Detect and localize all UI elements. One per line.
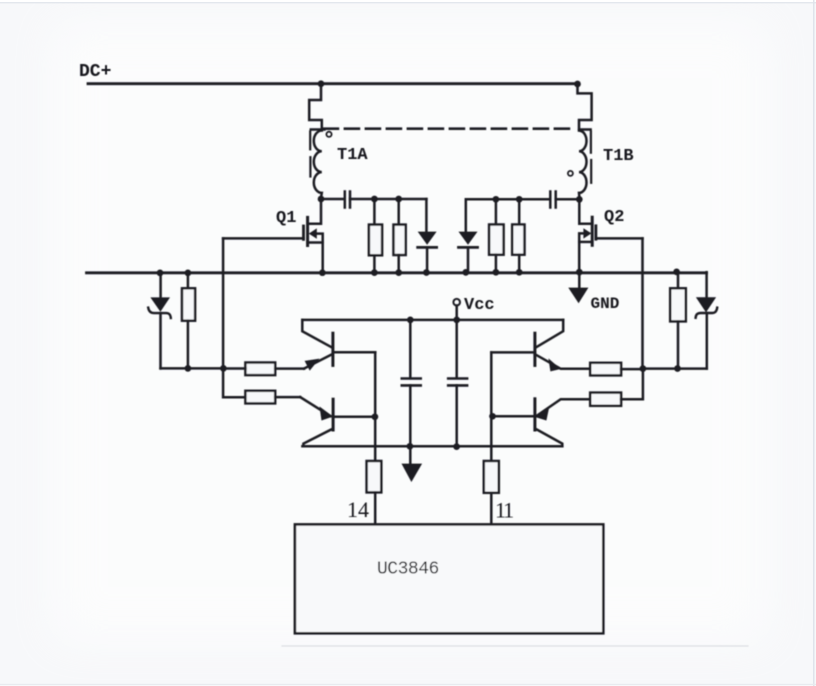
capacitor C1 plates (344, 192, 347, 208)
svg-text:T1A: T1A (337, 146, 368, 165)
node dot right gate junction (640, 365, 647, 372)
wire faint scan artifact (282, 645, 748, 647)
wire Vcc lead (455, 306, 458, 379)
wire bottom rail (87, 271, 707, 274)
transistor QC emitter arrow (548, 358, 560, 371)
resistor R2 (397, 199, 400, 225)
node dot R10 bottom (674, 365, 681, 372)
transformer T1A winding (314, 131, 322, 197)
transformer T1A core dash 2 (309, 157, 311, 176)
wire T1B crank lead (578, 84, 592, 130)
node junction dot T1B top (574, 81, 581, 88)
wire QB base (333, 416, 375, 419)
node dot QB base (372, 413, 379, 420)
node dot R2 top (395, 196, 402, 203)
wire dashed coupling line (324, 127, 575, 130)
wire Q2 body stub (579, 241, 592, 244)
svg-text:T1B: T1B (603, 147, 634, 166)
transistor QA emitter arrow (305, 359, 320, 371)
wire left protection to gate node (161, 367, 224, 370)
transistor QD emitter arrow (535, 407, 549, 420)
transistor QD bar (533, 399, 536, 430)
wire T1A crank lead (309, 84, 322, 130)
transformer T1B phase dot (568, 171, 573, 176)
ground GND arrow (578, 272, 581, 288)
resistor R7 (245, 391, 275, 404)
node junction dot T1A top (318, 80, 325, 87)
svg-text:Q2: Q2 (604, 208, 624, 227)
diode D2 (466, 199, 550, 231)
resistor R1 (373, 199, 376, 225)
resistor R11 (367, 461, 382, 492)
transistor Q2 source arrow (583, 228, 591, 238)
wire QC base (491, 351, 535, 354)
node rail dots (157, 270, 164, 277)
wire Q2 drain (579, 199, 591, 223)
transformer T1B core dash 2 (590, 160, 592, 183)
wire Q2 gate vertical (641, 238, 644, 368)
wire pin 14 (374, 352, 377, 461)
svg-text:Q1: Q1 (276, 209, 296, 228)
wire right protection (643, 367, 707, 370)
wire Vcc bus (302, 319, 563, 322)
node dot lower bus cap1 (407, 443, 414, 450)
transistor QC bar (533, 333, 536, 365)
capacitor C4 (448, 377, 467, 380)
resistor R8 (590, 363, 621, 376)
wire QD emitter (536, 399, 590, 416)
resistor R6 (245, 363, 275, 376)
wire left cap lead (321, 198, 345, 201)
wire pin 11 (490, 352, 493, 461)
transistor Q1 source arrow (309, 228, 317, 238)
wire QB emitter (300, 397, 330, 416)
svg-text:UC3846: UC3846 (377, 560, 439, 580)
wire Q2 source (579, 233, 584, 272)
wire QC collector (536, 320, 563, 347)
node junction dot T1B bottom (576, 196, 583, 203)
wire Q1 body stub (308, 241, 323, 244)
wire left group top (350, 198, 426, 201)
transformer T1B core dash 1 (590, 132, 592, 153)
node dot cap1 top (407, 317, 414, 324)
transformer T1B winding (579, 131, 587, 197)
svg-text:14: 14 (347, 497, 369, 522)
wire Q1 drain (309, 199, 321, 224)
wire QD base (493, 415, 535, 418)
resistor R5 (187, 273, 190, 288)
node junction dot T1A bottom (318, 196, 325, 203)
transistor QB bar (332, 399, 335, 430)
svg-text:GND: GND (591, 295, 620, 313)
ground arrow center (402, 464, 423, 482)
capacitor C2 plates (549, 192, 552, 208)
wire Q2 gate lead (596, 237, 643, 240)
wire top DC+ rail (88, 82, 578, 85)
wire QD collector (537, 430, 562, 447)
wire Q1 gate vertical (223, 238, 245, 397)
resistor R4 (518, 199, 521, 224)
transistor Q1 gate bar (302, 226, 305, 239)
resistor R9 (590, 393, 621, 406)
transformer T1B top bar (580, 128, 591, 131)
wire QA base (333, 351, 375, 354)
wire QA emitter (304, 354, 332, 368)
svg-text:11: 11 (495, 498, 513, 523)
node dot R4 top (516, 196, 523, 203)
node dot R5 bottom (185, 365, 192, 372)
diode D1 (425, 199, 428, 232)
wire right cap lead (556, 198, 580, 201)
transistor Q1 channel bar (306, 217, 309, 245)
node dot left gate junction (220, 365, 227, 372)
transistor Q2 gate bar (595, 226, 598, 239)
node dot R1 top (371, 196, 378, 203)
transistor QB emitter arrow (320, 407, 334, 421)
node dot lower bus cap2 (453, 443, 460, 450)
wire lower bus (302, 445, 562, 448)
zener diode Z2 (705, 272, 708, 297)
node dot QD base (489, 413, 496, 420)
capacitor C3 (409, 320, 412, 378)
node dot Vcc lead (453, 317, 460, 324)
resistor R10 (677, 272, 680, 288)
svg-text:Vcc: Vcc (464, 296, 495, 315)
wire QB collector (303, 430, 331, 447)
wire QA collector (302, 320, 331, 347)
transistor Q2 channel bar (591, 217, 594, 245)
transformer T1A core dash 1 (309, 132, 311, 150)
transistor QA bar (331, 333, 334, 365)
terminal Vcc circle (453, 299, 460, 306)
transformer T1A top bar (311, 128, 325, 131)
wire Q1 gate lead (223, 237, 303, 240)
svg-text:DC+: DC+ (79, 62, 111, 82)
node dot R3 top (493, 196, 500, 203)
resistor R12 (484, 461, 499, 493)
wire Q1 source (317, 234, 323, 273)
zener diode Z1 (159, 273, 162, 298)
transformer T1A phase dot (326, 132, 331, 137)
op-amp U1 UC3846 box (295, 524, 603, 633)
resistor R3 (495, 199, 498, 224)
wire QC emitter (535, 354, 590, 369)
